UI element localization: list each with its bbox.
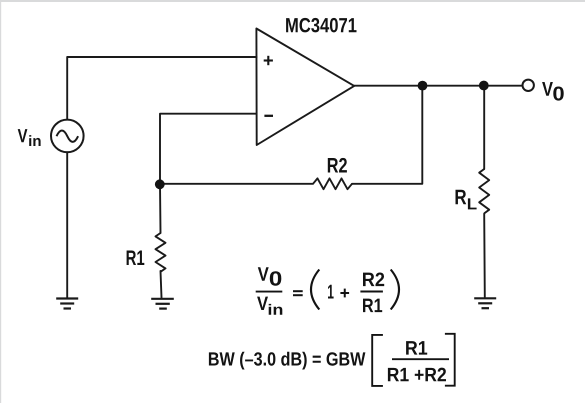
op-amp U1 — [256, 29, 354, 146]
left bracket — [372, 335, 383, 386]
label R2 — [328, 158, 347, 173]
wire: op-amp output rail — [354, 85, 522, 87]
wire: Vin bottom to ground — [66, 152, 68, 297]
open paren — [311, 270, 319, 310]
ground (Vin) — [56, 299, 78, 309]
output junction dot 1 — [418, 81, 428, 91]
close paren — [391, 270, 399, 310]
wire: node A down to R1 — [159, 184, 162, 233]
node A junction dot — [155, 179, 165, 189]
fraction bar VO/Vin — [256, 291, 283, 293]
plus sign — [340, 289, 349, 298]
wire: output node down to RL — [483, 86, 485, 169]
label Vin — [18, 129, 41, 146]
bandwidth formula: BW (-3.0 dB) = GBW [R1/(R1+R2)] — [209, 334, 455, 386]
wire: R1 bottom to ground — [161, 271, 162, 298]
resistor RL — [479, 169, 489, 213]
label VO — [542, 82, 564, 101]
digit 1 — [328, 285, 334, 299]
wire: RL bottom to ground — [483, 214, 486, 297]
formula R2/R1 denominator — [363, 299, 382, 312]
ground (RL) — [474, 298, 496, 308]
equals sign — [293, 291, 303, 295]
right bracket — [445, 334, 455, 386]
fraction bar — [392, 358, 449, 360]
AC source Vin — [51, 120, 84, 153]
label MC34071 — [286, 18, 356, 33]
op-amp - pin mark — [264, 115, 273, 117]
wire: node A to R2 — [160, 183, 313, 185]
resistor R1 — [156, 233, 166, 272]
label R1 — [127, 251, 145, 265]
formula VO/Vin fraction text — [257, 267, 282, 314]
wire: Vin top to op-amp +input — [67, 57, 256, 120]
label RL — [456, 190, 477, 210]
ground (R1) — [151, 299, 174, 309]
fraction bar R2/R1 — [360, 291, 383, 293]
fraction denominator R1 +R2 — [388, 368, 446, 382]
wire: -input to node A — [160, 114, 257, 180]
formula R2/R1 numerator — [363, 272, 384, 286]
BW (-3.0 dB) = GBW text — [209, 352, 366, 370]
op-amp + pin mark — [264, 56, 273, 65]
gain formula: VO/Vin = (1 + R2/R1) — [256, 267, 399, 314]
fraction numerator R1 — [406, 341, 427, 354]
wire: R2 to output node — [352, 89, 422, 184]
resistor R2 — [313, 178, 352, 189]
output terminal — [523, 80, 534, 91]
output junction dot 2 — [479, 81, 489, 91]
